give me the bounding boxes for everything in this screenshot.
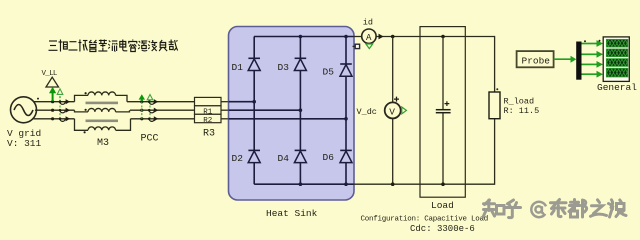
wire phase C source to transformer xyxy=(34,118,75,120)
watermark Zhihu xyxy=(483,200,626,218)
svg-text:R_load: R_load xyxy=(504,97,535,107)
resistor R1 xyxy=(195,97,222,105)
top DC rail xyxy=(376,36,494,38)
scope trace thumbnail 3 xyxy=(606,59,627,67)
svg-text:D6: D6 xyxy=(323,152,335,163)
voltmeter V_dc branch wire xyxy=(392,37,394,103)
wire winding 3 right lead xyxy=(116,119,131,131)
node measurement taps at source xyxy=(51,100,54,120)
svg-text:V_LL: V_LL xyxy=(42,70,58,78)
svg-text:D2: D2 xyxy=(232,153,244,164)
node measurement taps at PCC xyxy=(140,100,143,120)
measurement dashed line across phases at source xyxy=(59,102,61,119)
wire phase B source to transformer xyxy=(35,109,75,111)
load subsystem frame xyxy=(420,27,465,198)
svg-text:Heat Sink: Heat Sink xyxy=(266,208,318,219)
resistor R3 xyxy=(195,114,222,122)
capacitor Cdc plates xyxy=(436,109,451,111)
svg-text:R3: R3 xyxy=(203,128,215,139)
svg-text:D1: D1 xyxy=(232,62,244,73)
wire winding 2 left lead xyxy=(75,110,89,112)
svg-text:R1: R1 xyxy=(203,108,213,116)
AC source V grid xyxy=(11,97,37,123)
node top rail / capacitor xyxy=(441,35,445,39)
plus sign V_dc xyxy=(394,97,399,102)
signal wire probe to mux xyxy=(554,58,572,60)
wire leg A vertical xyxy=(253,37,255,59)
node phase C / leg C xyxy=(344,117,348,121)
node R_load anchor dot xyxy=(496,88,498,90)
probe block xyxy=(517,51,554,67)
scope trace thumbnail 2 xyxy=(606,49,627,57)
svg-text:D3: D3 xyxy=(278,62,290,73)
node phase B / leg B xyxy=(299,108,303,112)
svg-text:R: 11.5: R: 11.5 xyxy=(504,106,540,116)
resistor R_load xyxy=(489,92,500,119)
node bottom rail / leg C xyxy=(344,182,348,186)
arrowhead phase A after PCC xyxy=(154,99,158,104)
arrowhead phase B after PCC xyxy=(154,108,158,113)
scope trace thumbnail 1 xyxy=(606,39,627,47)
dot signal label 2 xyxy=(599,40,601,42)
resistor R2 xyxy=(195,106,222,115)
svg-text:Configuration: Capacitive Load: Configuration: Capacitive Load xyxy=(361,215,489,223)
scope General box xyxy=(603,37,629,82)
voltmeter V_LL triangle xyxy=(46,77,59,87)
wire winding 3 left lead xyxy=(75,119,89,131)
wire winding 1 left lead xyxy=(75,95,89,101)
node bottom rail / capacitor xyxy=(441,182,445,186)
heat sink interior xyxy=(229,35,354,186)
probe hook phase C at source xyxy=(60,119,65,122)
wire positive DC rail inside heat sink xyxy=(254,36,354,38)
svg-text:V_dc: V_dc xyxy=(357,107,377,117)
plus sign capacitor xyxy=(445,101,450,106)
probe hook phase B at source xyxy=(60,110,65,113)
svg-text:R2: R2 xyxy=(203,117,212,125)
svg-text:Load: Load xyxy=(431,200,454,211)
probe hook phase B at PCC xyxy=(149,110,154,113)
signal arrow mux to scope 2 xyxy=(582,53,598,55)
diode D2 xyxy=(248,149,260,151)
signal arrows mux to scope xyxy=(582,40,604,78)
probe hook phase A at PCC xyxy=(149,102,154,105)
signal arrow dashed at source xyxy=(57,89,63,95)
node top rail / V_dc xyxy=(391,35,395,39)
arrowhead phase A into transformer xyxy=(66,99,70,104)
wire leg B vertical xyxy=(299,37,301,59)
inductor winding 1 of M3 xyxy=(88,92,116,95)
transformer core bar 1 xyxy=(86,102,119,105)
svg-text:Probe: Probe xyxy=(522,55,551,66)
arrowhead phase C after PCC xyxy=(154,116,158,121)
dot signal label 1 xyxy=(584,40,586,42)
voltmeter direction indicator xyxy=(402,107,407,114)
transformer M3 xyxy=(75,92,131,133)
bottom DC rail xyxy=(354,183,495,185)
diode D4 xyxy=(295,149,307,151)
probe arrows at source xyxy=(49,87,70,122)
wire negative DC rail inside heat sink xyxy=(254,183,353,185)
capacitor Cdc branch xyxy=(442,37,444,110)
diode D6 xyxy=(340,149,352,151)
wire phase A source to transformer xyxy=(34,101,75,103)
diode D5 xyxy=(340,63,352,65)
inductor winding 2 of M3 xyxy=(88,108,116,111)
polarity dot winding 2 xyxy=(85,109,87,111)
signal arrow V_LL (solid green) xyxy=(52,93,54,102)
signal arrow mux to scope 1 xyxy=(582,43,598,45)
heat sink thermal port xyxy=(353,44,360,48)
polarity dot winding 3 xyxy=(84,131,86,133)
svg-text:id: id xyxy=(363,18,373,28)
signal arrow dashed at PCC xyxy=(147,95,153,100)
svg-text:General: General xyxy=(597,82,637,93)
ammeter direction indicator xyxy=(366,44,373,49)
arrowhead phase B into transformer xyxy=(66,108,70,113)
ammeter id wire xyxy=(354,36,363,38)
node phase A / leg A xyxy=(252,100,256,104)
probe hook phase A at source xyxy=(60,102,65,105)
wire leg C vertical xyxy=(345,37,347,65)
wire phase C to D5/D6 leg xyxy=(229,118,347,120)
title text (Chinese) xyxy=(49,40,178,52)
voltmeter V_dc xyxy=(385,102,401,118)
mux bar xyxy=(576,42,581,80)
heat sink block xyxy=(229,27,355,201)
svg-text:A: A xyxy=(366,33,372,43)
svg-text:M3: M3 xyxy=(97,138,109,149)
wires transformer to R block xyxy=(127,102,195,119)
signal arrow mux to scope 3 xyxy=(582,63,598,65)
signal arrow mux to scope 4 xyxy=(582,73,598,75)
svg-text:V: V xyxy=(389,106,395,117)
probe arrows at PCC xyxy=(139,94,159,121)
arrowhead after ammeter xyxy=(379,34,384,40)
wire phase B to D3/D4 leg xyxy=(229,109,301,111)
svg-text:D5: D5 xyxy=(323,67,335,78)
diode D3 xyxy=(295,57,307,59)
svg-text:D4: D4 xyxy=(278,153,290,164)
probe hook phase C at PCC xyxy=(149,119,154,122)
svg-text:PCC: PCC xyxy=(141,133,159,144)
inductor winding 3 of M3 xyxy=(88,127,116,130)
wire winding 1 right lead xyxy=(116,95,127,101)
arrowhead phase C into transformer xyxy=(66,116,70,121)
node top rail / leg C xyxy=(344,35,348,39)
scope General xyxy=(603,37,629,82)
node bottom rail / leg B xyxy=(299,182,303,186)
polarity dot winding 1 xyxy=(85,92,87,94)
transformer core bar 2 xyxy=(86,120,119,123)
resistor R_load branch xyxy=(494,36,496,92)
svg-text:V: 311: V: 311 xyxy=(7,138,42,149)
diode D1 xyxy=(248,57,260,59)
svg-text:Cdc: 3300e-6: Cdc: 3300e-6 xyxy=(410,224,475,234)
wire phase A to D1/D2 leg xyxy=(229,101,255,103)
scope trace thumbnail 4 xyxy=(606,68,627,77)
wire winding 2 right lead xyxy=(116,110,130,112)
node top rail / leg B xyxy=(299,35,303,39)
wires R block to heat sink xyxy=(221,102,229,119)
signal arrow at PCC (solid green) xyxy=(141,99,143,101)
node bottom rail / V_dc xyxy=(391,182,395,186)
node label dot xyxy=(37,98,39,100)
ammeter id xyxy=(362,29,376,43)
